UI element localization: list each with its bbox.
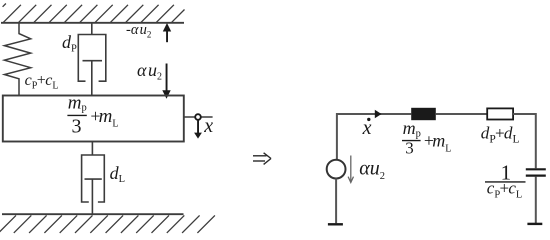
label dL	[110, 163, 125, 185]
spring cP+cL	[4, 23, 30, 96]
floor fixed support line	[2, 213, 184, 215]
node circle	[195, 114, 201, 120]
resistor dP+dL box	[487, 108, 513, 119]
current direction arrow	[375, 110, 382, 119]
svg-text:dP: dP	[62, 32, 77, 55]
ceiling hatching	[3, 4, 185, 23]
capacitor label 1/(cP+cL)	[485, 161, 526, 201]
label cP+cL	[25, 72, 59, 91]
svg-text:x: x	[203, 115, 213, 137]
svg-text:mp: mp	[403, 118, 421, 139]
damper dL piston and rod	[85, 179, 102, 214]
right terminal bar	[527, 223, 542, 225]
svg-text:3: 3	[72, 116, 82, 138]
damper dP cylinder	[78, 35, 106, 82]
wire capacitor down	[535, 177, 537, 223]
node pointer line	[184, 116, 213, 118]
label dP+dL	[481, 123, 520, 145]
label mp/3 fraction circuit	[402, 118, 421, 158]
wire resistor to right corner and down	[513, 114, 536, 168]
label -alpha u2	[126, 22, 151, 40]
svg-text:dL: dL	[110, 163, 125, 185]
wire top left corner and top run	[337, 114, 411, 160]
svg-text:cP+cL: cP+cL	[25, 72, 59, 91]
svg-text:-α u2: -α u2	[126, 22, 151, 40]
label +mL circuit	[424, 130, 451, 154]
floor hatching	[0, 215, 215, 233]
svg-text:3: 3	[405, 139, 414, 158]
label +mL	[90, 106, 118, 130]
wire source down	[335, 179, 337, 224]
label dP	[62, 32, 77, 55]
damper dL top rod	[91, 142, 93, 156]
inductor (mass) black box	[411, 108, 436, 120]
svg-text:αu2: αu2	[359, 157, 385, 182]
damper dP piston and rod	[83, 61, 103, 96]
arrow down x	[194, 120, 202, 139]
label alpha u2 circuit	[359, 157, 385, 182]
svg-text:α u2: α u2	[137, 60, 162, 83]
capacitor plates	[526, 169, 546, 175]
label x-dot	[362, 117, 372, 139]
svg-text:dP+dL: dP+dL	[481, 123, 520, 145]
arrow down alpha u2	[162, 64, 170, 99]
damper dL cylinder	[82, 155, 105, 202]
mass box	[3, 96, 184, 142]
ceiling fixed support line	[1, 22, 184, 24]
source circle	[327, 160, 346, 179]
wire between inductor and resistor	[436, 113, 487, 115]
label alpha u2	[137, 60, 162, 83]
label mp/3 fraction	[67, 92, 86, 137]
damper dP top rod	[91, 23, 93, 35]
left terminal bar	[328, 223, 343, 225]
svg-text:mL: mL	[432, 131, 451, 155]
implies arrow	[253, 153, 271, 165]
arrow up -alpha u2	[163, 23, 171, 42]
source direction arrow	[348, 156, 353, 183]
label x	[203, 115, 213, 137]
svg-text:mL: mL	[99, 106, 119, 130]
